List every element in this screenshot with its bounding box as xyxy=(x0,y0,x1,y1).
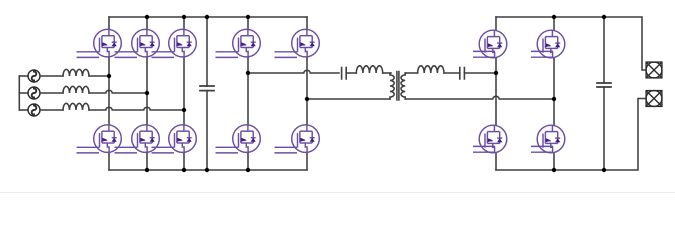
transistor Q11 xyxy=(473,30,507,58)
node: right bridge in left xyxy=(494,71,498,75)
wire: V2 to L2 xyxy=(40,92,63,94)
node: rail bottom leg7 xyxy=(552,168,556,172)
transistor Q13 xyxy=(473,125,507,153)
inductor L1 xyxy=(63,69,89,76)
wire: V3 to L3 xyxy=(40,109,63,111)
capacitor C1 plates xyxy=(200,86,214,91)
node: rail bottom leg4 xyxy=(246,168,250,172)
transistor Q8 xyxy=(275,29,320,57)
transistor Q1 xyxy=(77,29,122,57)
AC source V1 xyxy=(28,70,40,82)
node: rail top leg7 xyxy=(552,15,556,19)
capacitor C1 dc-link lead top xyxy=(206,17,208,86)
transistor Q7 xyxy=(216,29,261,57)
inductor L2 xyxy=(63,86,89,93)
wire: leg7 segments xyxy=(553,17,555,170)
transformer T1 core xyxy=(397,72,399,101)
node: rail bottom leg2 xyxy=(145,168,149,172)
inductor L4 resonant xyxy=(356,66,382,73)
faint page rule line xyxy=(0,192,675,194)
wire: C2 to L4 xyxy=(346,72,356,74)
node: phase A xyxy=(107,74,111,78)
wire: rectifier bottom rail xyxy=(109,169,307,171)
transistor Q9 xyxy=(216,125,261,153)
node: phase C xyxy=(182,108,186,112)
node: rail top leg2 xyxy=(145,15,149,19)
wire: leg1 segments xyxy=(108,17,110,170)
transistor Q4 xyxy=(77,125,122,153)
transistor Q3 xyxy=(152,29,197,57)
wire: input bus vertical xyxy=(18,76,20,110)
AC source V2 xyxy=(28,87,40,99)
node: rail bottom C4 xyxy=(602,168,606,172)
wire: L5 to C3 xyxy=(444,72,460,74)
node: rail top C4 xyxy=(602,15,606,19)
node: right bridge in right xyxy=(552,97,556,101)
capacitor C4 lead bottom xyxy=(603,87,605,170)
wire: leg3 segments xyxy=(183,17,185,170)
wire: C3 to right bridge node xyxy=(464,72,496,74)
wire: leg2 segments xyxy=(146,17,148,170)
transistor Q14 xyxy=(531,125,565,153)
wire: bus stub phase B xyxy=(19,92,28,94)
wire: rectifier top rail xyxy=(109,16,307,18)
capacitor C4 plates xyxy=(597,83,611,87)
lamp load 2 xyxy=(646,91,662,107)
capacitor C4 output lead top xyxy=(603,17,605,83)
transformer T1 secondary winding xyxy=(401,73,405,99)
wire: tank top from node A with hop over leg5 xyxy=(248,70,339,73)
transistor Q2 xyxy=(115,29,160,57)
wire: L1 to leg1 xyxy=(89,75,109,77)
node: rail top leg3 xyxy=(182,15,186,19)
transistor Q5 xyxy=(115,125,160,153)
node: H-bridge out left xyxy=(246,71,250,75)
AC source V3 xyxy=(28,104,40,116)
wire: tank bottom left from leg5 node to primary xyxy=(307,98,390,100)
wire: secondary bottom to right with hop over leg6 xyxy=(405,96,554,99)
wire: bus stub phase A xyxy=(19,75,28,77)
transformer T1 primary winding xyxy=(390,73,394,99)
lamp load 1 xyxy=(646,62,662,78)
capacitor C1 lead bottom xyxy=(206,91,208,170)
wire: H-bridge leg5 segments xyxy=(306,17,308,170)
transistor Q10 xyxy=(275,125,320,153)
wire: L2 to leg2 with hop over leg1 xyxy=(89,90,147,93)
wire: secondary top to L5 xyxy=(405,72,417,74)
node: rail bottom C1 xyxy=(205,168,209,172)
wire: H-bridge leg4 segments xyxy=(247,17,249,170)
capacitor C3 resonant plates xyxy=(460,68,465,80)
wire: L3 to leg3 with hops over leg1 leg2 xyxy=(89,107,184,110)
node: rail top leg4 xyxy=(246,15,250,19)
transistor Q12 xyxy=(531,30,565,58)
wire: right bridge bottom rail xyxy=(496,99,646,171)
node: rail top C1 xyxy=(205,15,209,19)
node: rail bottom leg3 xyxy=(182,168,186,172)
inductor L5 resonant xyxy=(418,66,444,73)
wire: V1 to L1 xyxy=(40,75,63,77)
wire: bus stub phase C xyxy=(19,109,28,111)
wire: L4 to transformer primary xyxy=(383,72,391,74)
node: phase B xyxy=(145,91,149,95)
node: H-bridge out right xyxy=(305,97,309,101)
wire: leg6 segments xyxy=(495,17,497,170)
capacitor C2 resonant plates xyxy=(342,68,347,80)
transistor Q6 xyxy=(152,125,197,153)
inductor L3 xyxy=(63,103,89,110)
wire: right bridge top rail xyxy=(496,17,646,70)
